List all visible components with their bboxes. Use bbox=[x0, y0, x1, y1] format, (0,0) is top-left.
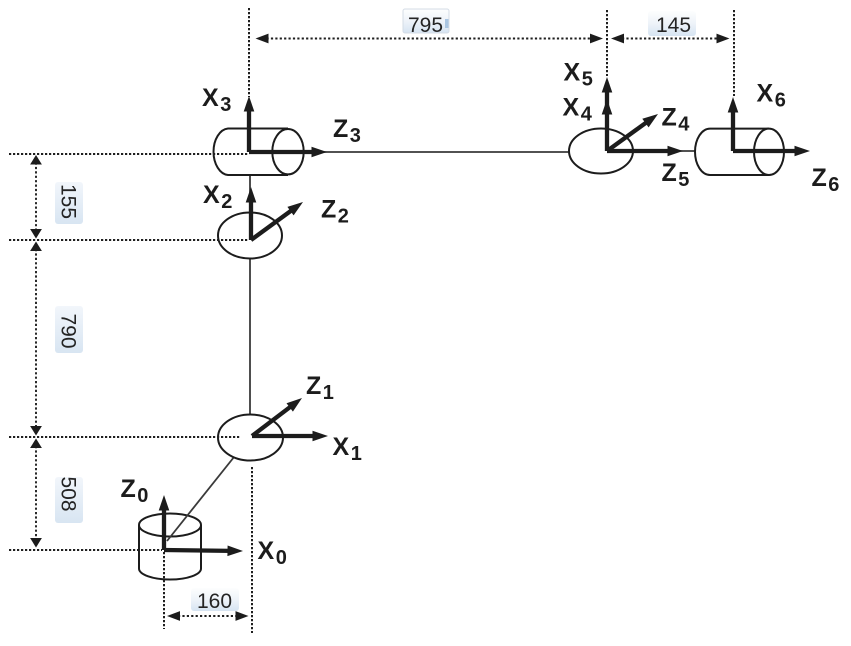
svg-text:795: 795 bbox=[408, 14, 443, 37]
svg-text:155: 155 bbox=[57, 184, 80, 219]
svg-text:790: 790 bbox=[57, 313, 80, 348]
svg-text:145: 145 bbox=[656, 14, 691, 37]
svg-text:508: 508 bbox=[57, 476, 80, 511]
svg-text:160: 160 bbox=[197, 590, 232, 613]
